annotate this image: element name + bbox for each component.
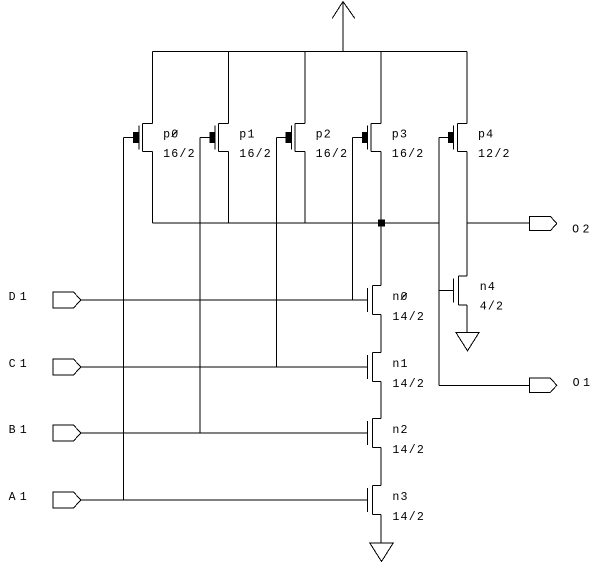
transistor n1	[368, 353, 382, 382]
wire p3 gate drop to D1 net	[352, 137, 354, 300]
svg-text:C1: C1	[9, 358, 31, 371]
port D1	[53, 292, 81, 308]
ground GND bottom	[370, 543, 393, 562]
wire C1 net	[81, 366, 368, 368]
svg-text:B1: B1	[9, 424, 31, 437]
junction NAND output node	[378, 220, 385, 227]
wire A1 net	[81, 499, 368, 501]
wire p1 gate lead	[200, 136, 209, 138]
svg-text:n3: n3	[392, 491, 408, 504]
wire p3 source lead	[380, 52, 382, 124]
transistor p3	[362, 123, 381, 151]
svg-text:p3: p3	[392, 128, 408, 141]
port O1	[530, 378, 557, 392]
wire inverter input vertical	[438, 137, 440, 385]
svg-text:n2: n2	[392, 424, 408, 437]
slash of zero in p0 label	[172, 130, 178, 136]
port O2	[530, 216, 557, 230]
transistor n3	[368, 486, 382, 515]
wire D1 net	[81, 299, 368, 301]
wire p2 drain lead	[304, 151, 306, 223]
wire n0 source to n1 drain	[380, 315, 382, 353]
svg-text:A1: A1	[9, 491, 31, 504]
slash of zero in n0 label	[401, 293, 407, 299]
svg-text:n4: n4	[480, 281, 496, 294]
wire p0 drain lead	[151, 151, 153, 223]
transistor p0	[133, 123, 152, 151]
wire p3 drain lead	[380, 151, 382, 223]
port A1	[53, 492, 81, 508]
transistor n0	[368, 286, 382, 315]
wire p1 source lead	[228, 52, 230, 124]
svg-text:n1: n1	[392, 358, 408, 371]
wire p2 source lead	[304, 52, 306, 124]
wire n4 source lead	[466, 305, 468, 332]
wire n2 source to n3 drain	[380, 448, 382, 486]
svg-text:16/2: 16/2	[316, 148, 349, 161]
svg-text:p4: p4	[478, 128, 494, 141]
transistor p4	[448, 123, 467, 151]
wire B1 net	[81, 432, 368, 434]
wire n0 drain lead	[380, 223, 382, 285]
wire p2 gate lead	[276, 136, 285, 138]
wire p3 gate lead	[353, 136, 362, 138]
wire p1 gate drop to B1 net	[199, 137, 201, 433]
wire p4 gate lead	[439, 136, 448, 138]
transistor p1	[209, 123, 228, 151]
wire O2 stub	[467, 222, 530, 224]
svg-text:O2: O2	[572, 224, 593, 237]
wire p0 gate drop to A1 net	[123, 137, 125, 500]
transistor n4	[454, 276, 468, 305]
svg-text:16/2: 16/2	[392, 148, 425, 161]
ground GND under n4	[456, 332, 479, 351]
svg-text:14/2: 14/2	[392, 444, 425, 457]
wire p0 gate lead	[124, 136, 133, 138]
wire n4 gate lead	[439, 290, 454, 292]
svg-text:p2: p2	[316, 128, 332, 141]
port B1	[53, 425, 81, 441]
svg-text:14/2: 14/2	[392, 511, 425, 524]
wire n3 source lead	[380, 515, 382, 544]
svg-text:D1: D1	[9, 291, 31, 304]
svg-text:14/2: 14/2	[392, 311, 425, 324]
svg-text:p1: p1	[239, 128, 255, 141]
svg-text:14/2: 14/2	[392, 378, 425, 391]
svg-text:4/2: 4/2	[480, 301, 504, 314]
wire n1 source to n2 drain	[380, 382, 382, 419]
wire O1 line	[439, 384, 530, 386]
wire p4 source lead	[466, 52, 468, 124]
svg-text:16/2: 16/2	[163, 148, 196, 161]
power VDD symbol	[332, 2, 355, 52]
wire p0 source lead	[151, 52, 153, 124]
port C1	[53, 359, 81, 375]
transistor p2	[286, 123, 305, 151]
transistor n2	[368, 419, 382, 448]
wire p4 drain to n4 drain	[466, 151, 468, 276]
svg-text:16/2: 16/2	[239, 148, 272, 161]
wire VDD rail	[152, 51, 467, 53]
svg-text:O1: O1	[573, 377, 594, 390]
wire p1 drain lead	[228, 151, 230, 223]
wire NAND output rail	[152, 222, 439, 224]
wire p2 gate drop to C1 net	[275, 137, 277, 367]
svg-text:12/2: 12/2	[478, 148, 511, 161]
